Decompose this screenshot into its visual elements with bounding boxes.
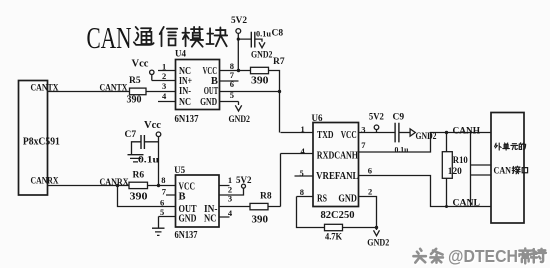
svg-text:@DTECH: @DTECH <box>448 246 518 266</box>
svg-text:GND2: GND2 <box>251 51 273 61</box>
svg-text:4.7K: 4.7K <box>325 233 343 243</box>
svg-text:R6: R6 <box>133 171 145 181</box>
svg-text:6: 6 <box>368 166 372 176</box>
svg-text:B: B <box>211 76 218 87</box>
svg-text:5V2: 5V2 <box>231 16 247 26</box>
svg-text:7: 7 <box>361 140 366 150</box>
svg-text:TXD: TXD <box>317 130 334 141</box>
svg-text:4: 4 <box>162 91 167 101</box>
svg-text:GND: GND <box>338 194 357 205</box>
svg-text:R7: R7 <box>273 57 285 67</box>
svg-text:8: 8 <box>300 187 304 197</box>
svg-text:CANTX: CANTX <box>100 84 128 94</box>
svg-text:R8: R8 <box>260 192 272 202</box>
svg-text:6: 6 <box>160 198 164 208</box>
svg-text:C9: C9 <box>393 112 405 122</box>
svg-text:GND2: GND2 <box>229 115 251 125</box>
svg-text:NC: NC <box>179 97 191 108</box>
svg-text:0.1u: 0.1u <box>395 145 409 155</box>
svg-text:7: 7 <box>162 187 167 197</box>
svg-text:CANL: CANL <box>453 198 481 208</box>
svg-text:0.1u: 0.1u <box>256 29 272 38</box>
svg-text:4: 4 <box>301 146 306 156</box>
svg-text:390: 390 <box>127 94 142 105</box>
svg-text:GND2: GND2 <box>367 239 389 249</box>
svg-text:IN+: IN+ <box>179 76 192 87</box>
svg-text:Vcc: Vcc <box>144 120 162 131</box>
svg-text:B: B <box>179 192 186 203</box>
svg-text:CANH: CANH <box>453 127 481 137</box>
svg-text:6N137: 6N137 <box>175 114 199 125</box>
svg-text:RS: RS <box>317 194 327 205</box>
svg-text:5V2: 5V2 <box>369 113 384 123</box>
svg-text:390: 390 <box>251 76 269 87</box>
svg-text:U4: U4 <box>175 49 186 59</box>
svg-text:6: 6 <box>230 79 234 89</box>
svg-text:VREFANL: VREFANL <box>316 171 358 182</box>
svg-text:120: 120 <box>448 167 462 177</box>
svg-text:P8xC591: P8xC591 <box>23 136 60 147</box>
svg-text:CAN: CAN <box>494 167 512 177</box>
svg-text:R5: R5 <box>129 76 141 86</box>
svg-text:390: 390 <box>130 191 148 202</box>
svg-text:5: 5 <box>160 207 164 217</box>
svg-text:R10: R10 <box>453 156 468 166</box>
svg-text:3: 3 <box>361 125 365 135</box>
svg-text:U5: U5 <box>174 165 185 175</box>
svg-text:OUT: OUT <box>204 86 219 97</box>
svg-text:C8: C8 <box>272 28 284 38</box>
svg-text:NC: NC <box>204 214 217 225</box>
svg-text:GND: GND <box>179 214 197 225</box>
svg-text:2: 2 <box>162 71 166 81</box>
svg-text:RXDCANH: RXDCANH <box>317 151 358 162</box>
svg-text:U6: U6 <box>312 113 323 123</box>
svg-text:6N137: 6N137 <box>175 230 198 241</box>
svg-text:CANRX: CANRX <box>100 178 129 188</box>
svg-text:0.1u: 0.1u <box>138 156 160 166</box>
svg-text:GND2: GND2 <box>416 132 437 142</box>
svg-text:Vcc: Vcc <box>132 58 150 69</box>
svg-text:82C250: 82C250 <box>321 210 355 221</box>
svg-text:390: 390 <box>252 215 269 226</box>
svg-text:IN-: IN- <box>179 86 191 97</box>
svg-text:8: 8 <box>161 175 165 185</box>
svg-text:VCC: VCC <box>341 130 357 141</box>
svg-text:CAN: CAN <box>87 20 132 55</box>
svg-text:C7: C7 <box>125 130 137 140</box>
svg-text:3: 3 <box>162 81 166 91</box>
svg-text:2: 2 <box>368 186 372 196</box>
svg-text:GND: GND <box>200 97 217 108</box>
